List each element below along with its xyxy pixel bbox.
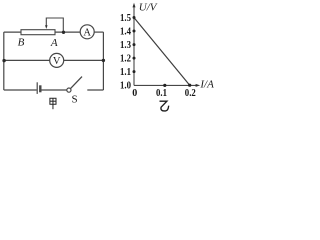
switch S pivot circle: [67, 88, 71, 92]
U-I characteristic line: [134, 18, 190, 86]
wire ammeter to top-right corner: [94, 31, 103, 33]
wire top-left horizontal: [4, 31, 21, 33]
svg-text:1.3: 1.3: [120, 40, 131, 51]
junction node middle-right: [102, 59, 105, 62]
svg-text:1.4: 1.4: [120, 27, 131, 38]
slider arrow head: [45, 25, 48, 29]
voltmeter V1 circle: [50, 53, 64, 67]
svg-text:A: A: [50, 37, 58, 49]
wire right vertical: [102, 32, 104, 90]
svg-text:1.2: 1.2: [120, 54, 131, 65]
wire bottom left to battery: [4, 89, 37, 91]
svg-text:0.2: 0.2: [185, 88, 196, 99]
label jia (circuit caption): [50, 98, 56, 109]
battery B1 short thick plate: [39, 85, 41, 92]
switch S lever: [71, 77, 83, 89]
y axis arrow head: [133, 3, 136, 8]
svg-text:1.5: 1.5: [120, 13, 131, 24]
svg-text:1.1: 1.1: [120, 67, 131, 78]
junction node middle-left: [2, 59, 5, 62]
svg-text:S: S: [72, 93, 78, 105]
junction node at slider terminal: [62, 31, 65, 34]
tick dot U=1.1: [133, 70, 136, 73]
svg-text:V: V: [53, 56, 61, 67]
tick dot U=1.3: [133, 43, 136, 46]
wire middle branch left: [4, 59, 50, 61]
tick dot U=1.5: [133, 16, 136, 19]
wire left vertical: [3, 32, 5, 90]
tick dot U=1.4: [133, 30, 136, 33]
tick dot U=1.2: [133, 57, 136, 60]
wire battery to switch: [41, 89, 66, 91]
x axis I: [134, 84, 197, 86]
tick dot I=0.1: [163, 84, 166, 87]
tick dot I=0.2: [188, 84, 191, 87]
svg-text:0: 0: [132, 88, 137, 99]
svg-text:1.0: 1.0: [120, 80, 131, 91]
label yi (graph caption): [160, 101, 169, 111]
rheostat slider bracket wire: [46, 18, 63, 32]
x axis arrow head: [196, 84, 201, 87]
ammeter A1 circle: [80, 25, 94, 39]
rheostat R1 body: [21, 30, 55, 35]
battery B1 long plate: [36, 82, 38, 94]
svg-text:0.1: 0.1: [156, 88, 167, 99]
wire switch to bottom-right corner: [87, 89, 103, 91]
svg-text:U/V: U/V: [139, 1, 158, 13]
svg-text:A: A: [83, 28, 91, 39]
svg-text:B: B: [18, 36, 25, 48]
y axis U: [133, 5, 135, 86]
wire middle branch right: [64, 59, 104, 61]
svg-text:I/A: I/A: [199, 78, 214, 90]
wire rheostat to ammeter: [55, 31, 80, 33]
